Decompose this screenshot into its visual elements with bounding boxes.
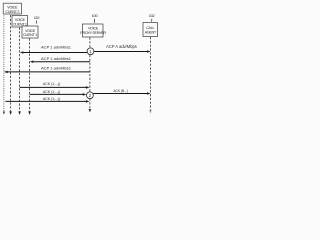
lifeline end arrowhead client B (18, 111, 21, 115)
lifeline client C (29, 39, 31, 112)
box voice client N (back) (3, 3, 21, 14)
wire message A: circle 1 to call agent (94, 51, 147, 53)
wire message 1: proxy to client B (24, 52, 88, 54)
arrowhead message 2 (30, 60, 34, 63)
arrowhead message 4 (86, 86, 90, 89)
svg-text:CLIENT 1: CLIENT 1 (23, 33, 37, 37)
node circle 2 on proxy lifeline (87, 92, 94, 99)
lifeline call agent (149, 37, 151, 111)
svg-text:ACK (1,..,j): ACK (1,..,j) (43, 90, 61, 94)
wire message 4: client B to proxy (20, 86, 86, 88)
label CALL AGENT (145, 26, 157, 35)
lifeline client A (10, 15, 12, 112)
wire message 5: client C to proxy (30, 93, 83, 95)
svg-text:CALL: CALL (146, 26, 154, 30)
arrowhead message B (147, 92, 151, 95)
arrowhead message 1 (20, 51, 24, 54)
svg-text:ACP 1 adv/Mbs1: ACP 1 adv/Mbs1 (41, 44, 72, 49)
label VOICE CLIENT 2 (middle box text) (13, 18, 27, 26)
lifeline client N (dotted, far left) (3, 16, 5, 113)
arrowhead message 6 (86, 100, 90, 103)
svg-text:102: 102 (149, 13, 156, 18)
arrowhead message A (147, 50, 151, 53)
leader tick for 110 (35, 21, 37, 24)
svg-text:110: 110 (34, 15, 41, 20)
svg-text:100: 100 (92, 13, 99, 18)
lifeline end arrowhead client N (3, 112, 5, 115)
label VOICE CLIENT 1 (front box text) (23, 29, 37, 37)
box voice client 2 (middle) (12, 16, 28, 28)
label VOICE CLIENT N (back box text) (5, 5, 19, 13)
wire message 3: proxy to client N (8, 71, 90, 73)
wire message 2: proxy to client C (34, 61, 90, 63)
leader tick for 102 (151, 19, 153, 22)
label VOICE PROXY SERVER (80, 27, 106, 36)
svg-text:ACK (B,..): ACK (B,..) (113, 89, 127, 93)
box voice client 1 (front) (22, 26, 38, 38)
lifeline end arrowhead call agent (149, 110, 152, 114)
svg-text:ACP 1 adv/Mbs1: ACP 1 adv/Mbs1 (41, 66, 72, 71)
arrowhead message 5 (83, 93, 87, 96)
lifeline end arrowhead client C (28, 111, 31, 115)
wire message 6: client N to proxy (6, 100, 87, 102)
lifeline voice proxy server (89, 38, 91, 110)
lifeline client B (19, 28, 21, 112)
lifeline end arrowhead client A (9, 111, 12, 115)
svg-text:VOICE: VOICE (25, 29, 36, 33)
svg-text:VOICE: VOICE (7, 5, 18, 9)
arrowhead message 3 (4, 71, 8, 74)
svg-text:CLIENT 1: CLIENT 1 (13, 22, 27, 26)
wire message B: circle 2 to call agent (93, 93, 147, 95)
svg-text:VOICE: VOICE (88, 27, 99, 31)
leader tick for 100 (93, 19, 95, 23)
svg-text:ACK (1,..,j): ACK (1,..,j) (43, 82, 61, 86)
svg-text:CLIENT 2: CLIENT 2 (5, 10, 19, 14)
lifeline end arrowhead proxy (89, 109, 92, 113)
box call agent (143, 23, 158, 37)
node circle 1 on proxy lifeline (87, 48, 94, 55)
svg-text:AGENT: AGENT (145, 30, 157, 34)
svg-text:ACP 1 adv/Mbs1: ACP 1 adv/Mbs1 (41, 56, 72, 61)
svg-text:VOICE: VOICE (15, 18, 26, 22)
box voice proxy server (83, 24, 104, 37)
svg-text:ACP A adv/Mbps: ACP A adv/Mbps (106, 44, 137, 49)
svg-text:PROXY SERVER: PROXY SERVER (80, 31, 106, 35)
svg-text:ACK (1,..,j): ACK (1,..,j) (43, 97, 61, 101)
